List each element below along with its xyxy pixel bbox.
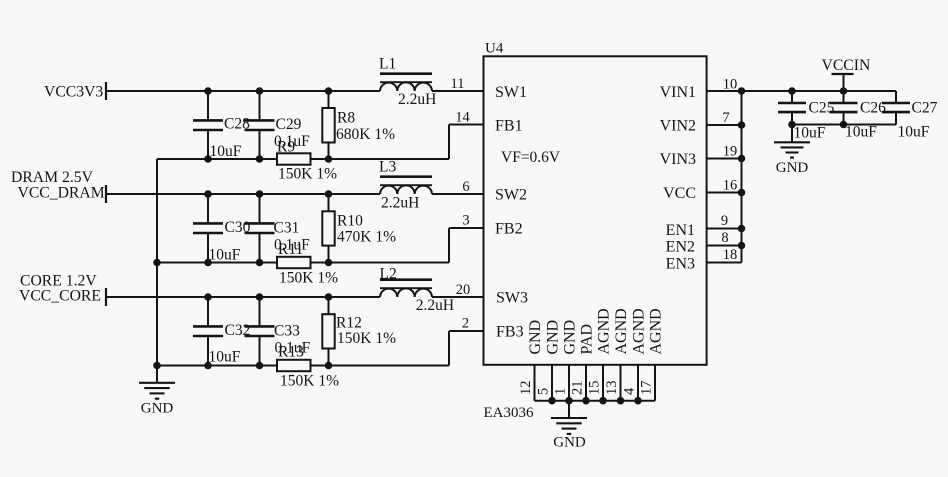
svg-text:10uF: 10uF bbox=[794, 125, 826, 142]
junction dots ch3 rail bbox=[153, 362, 332, 370]
wire VIN/EN pin stubs bbox=[707, 91, 742, 263]
svg-text:6: 6 bbox=[462, 179, 469, 195]
svg-text:R13: R13 bbox=[278, 344, 304, 361]
junction dots ch3 top wire bbox=[204, 293, 332, 301]
svg-text:19: 19 bbox=[723, 144, 738, 160]
wire VCC3V3 to SW1 bbox=[106, 90, 484, 92]
capacitor C29 bbox=[245, 91, 275, 159]
capacitor C32 bbox=[193, 297, 223, 366]
wire bottom ground rail bbox=[535, 400, 656, 402]
junction dots right bus bbox=[738, 87, 746, 249]
svg-text:14: 14 bbox=[455, 110, 470, 126]
svg-text:5: 5 bbox=[536, 388, 552, 395]
svg-text:VIN3: VIN3 bbox=[660, 151, 696, 168]
svg-text:EN1: EN1 bbox=[666, 222, 695, 239]
wire right bus vertical bbox=[741, 91, 743, 263]
wire VIN1 to input caps bbox=[742, 90, 897, 92]
resistor R8 bbox=[322, 91, 334, 159]
wire ch3 feedback rail bbox=[157, 331, 484, 366]
svg-text:7: 7 bbox=[722, 110, 729, 126]
junction dots ch2 rail bbox=[153, 259, 332, 267]
svg-text:17: 17 bbox=[639, 381, 655, 396]
resistor R13 bbox=[277, 360, 311, 371]
svg-text:10uF: 10uF bbox=[898, 124, 930, 141]
svg-text:2.2uH: 2.2uH bbox=[381, 195, 419, 212]
svg-text:C27: C27 bbox=[912, 100, 938, 117]
svg-text:C29: C29 bbox=[276, 116, 302, 133]
svg-text:EN2: EN2 bbox=[666, 239, 695, 256]
svg-text:EN3: EN3 bbox=[666, 256, 695, 273]
svg-text:VCC3V3: VCC3V3 bbox=[44, 84, 103, 101]
svg-text:18: 18 bbox=[723, 247, 738, 263]
svg-text:AGND: AGND bbox=[596, 308, 613, 354]
svg-text:AGND: AGND bbox=[613, 308, 630, 354]
port VCC3V3 bbox=[44, 82, 106, 101]
inductor L3 bbox=[380, 177, 432, 194]
wire VCC_CORE to SW3 bbox=[106, 296, 484, 298]
svg-text:FB2: FB2 bbox=[495, 221, 523, 238]
svg-text:GND: GND bbox=[527, 320, 544, 355]
svg-text:680K 1%: 680K 1% bbox=[336, 126, 395, 143]
capacitor C25 bbox=[778, 91, 806, 125]
capacitor C31 bbox=[245, 194, 275, 263]
wire bottom pin stubs bbox=[535, 365, 656, 401]
junction dots caps bbox=[788, 87, 847, 128]
svg-text:VIN1: VIN1 bbox=[660, 84, 696, 101]
svg-text:11: 11 bbox=[451, 76, 465, 92]
resistor R11 bbox=[277, 257, 311, 268]
svg-text:L2: L2 bbox=[380, 266, 397, 283]
svg-text:21: 21 bbox=[570, 381, 586, 396]
ground symbol right bbox=[774, 125, 810, 158]
svg-text:16: 16 bbox=[723, 178, 738, 194]
svg-text:1: 1 bbox=[553, 388, 569, 395]
resistor R9 bbox=[277, 153, 311, 164]
svg-text:PAD: PAD bbox=[579, 324, 596, 355]
inductor L2 bbox=[380, 280, 432, 297]
capacitor C27 bbox=[882, 91, 910, 125]
svg-text:8: 8 bbox=[721, 230, 728, 246]
op IC U4 body bbox=[484, 56, 707, 365]
svg-text:EA3036: EA3036 bbox=[484, 405, 534, 421]
svg-text:R8: R8 bbox=[337, 110, 355, 127]
svg-text:R12: R12 bbox=[336, 315, 362, 332]
svg-text:VCC_CORE: VCC_CORE bbox=[19, 288, 101, 305]
junction dots ch2 top wire bbox=[204, 190, 332, 198]
svg-text:L1: L1 bbox=[379, 56, 396, 73]
svg-text:U4: U4 bbox=[485, 41, 504, 57]
port VCC_CORE bbox=[19, 273, 106, 307]
svg-text:GND: GND bbox=[776, 160, 809, 176]
pin names GND/PAD/AGND (rotated) bbox=[527, 308, 665, 354]
resistor R10 bbox=[322, 194, 334, 263]
capacitor C30 bbox=[193, 194, 223, 263]
svg-text:VF=0.6V: VF=0.6V bbox=[501, 149, 561, 166]
svg-text:VCCIN: VCCIN bbox=[822, 57, 871, 74]
port VCC_DRAM bbox=[11, 169, 106, 203]
svg-text:FB3: FB3 bbox=[496, 324, 524, 341]
capacitor C28 bbox=[193, 91, 223, 159]
wire ch2 feedback rail bbox=[157, 228, 484, 263]
wire VCC_DRAM to SW2 bbox=[106, 193, 484, 195]
svg-text:12: 12 bbox=[518, 381, 534, 396]
svg-text:10uF: 10uF bbox=[210, 143, 242, 160]
ground symbol IC bbox=[551, 401, 587, 434]
svg-text:10uF: 10uF bbox=[209, 247, 241, 264]
inductor L1 bbox=[380, 74, 432, 91]
wire ground feed vertical bbox=[156, 159, 158, 366]
pin numbers 12 5 1 21 15 13 4 17 (rotated) bbox=[518, 381, 655, 396]
svg-text:15: 15 bbox=[587, 381, 603, 396]
svg-text:VCC: VCC bbox=[663, 185, 696, 202]
svg-text:3: 3 bbox=[462, 213, 469, 229]
svg-text:2: 2 bbox=[462, 316, 469, 332]
svg-text:150K 1%: 150K 1% bbox=[279, 270, 338, 287]
svg-text:9: 9 bbox=[721, 213, 728, 229]
resistor R12 bbox=[322, 297, 334, 366]
svg-text:150K 1%: 150K 1% bbox=[337, 330, 396, 347]
svg-text:10uF: 10uF bbox=[845, 124, 877, 141]
svg-text:20: 20 bbox=[456, 282, 471, 298]
svg-text:470K 1%: 470K 1% bbox=[337, 229, 396, 246]
svg-text:AGND: AGND bbox=[631, 308, 648, 354]
svg-text:150K 1%: 150K 1% bbox=[280, 373, 339, 390]
svg-text:SW2: SW2 bbox=[495, 187, 527, 204]
svg-text:SW1: SW1 bbox=[495, 84, 527, 101]
svg-text:SW3: SW3 bbox=[496, 290, 528, 307]
svg-text:C31: C31 bbox=[274, 220, 300, 237]
ground symbol left bbox=[139, 366, 175, 399]
svg-text:10uF: 10uF bbox=[209, 349, 241, 366]
junction dots bottom rail bbox=[548, 397, 642, 405]
svg-text:AGND: AGND bbox=[648, 308, 665, 354]
svg-text:13: 13 bbox=[604, 381, 620, 396]
wire ch1 feedback rail bbox=[157, 125, 484, 160]
capacitor C26 bbox=[830, 91, 858, 125]
svg-text:4: 4 bbox=[622, 387, 638, 395]
svg-text:10: 10 bbox=[723, 77, 738, 93]
svg-text:L3: L3 bbox=[379, 159, 396, 176]
svg-text:GND: GND bbox=[562, 320, 579, 355]
svg-text:R11: R11 bbox=[278, 241, 303, 258]
svg-text:VCC_DRAM: VCC_DRAM bbox=[18, 185, 105, 202]
svg-text:C33: C33 bbox=[274, 323, 300, 340]
wire caps bottom rail bbox=[792, 124, 896, 126]
svg-text:GND: GND bbox=[141, 401, 174, 417]
svg-text:FB1: FB1 bbox=[495, 118, 523, 135]
port VCCIN bbox=[822, 57, 871, 91]
capacitor C33 bbox=[245, 297, 275, 366]
svg-text:150K 1%: 150K 1% bbox=[278, 166, 337, 183]
junction dots ch1 rail bbox=[204, 155, 332, 163]
svg-text:GND: GND bbox=[545, 320, 562, 355]
junction dots ch1 top wire bbox=[204, 87, 332, 95]
svg-text:R10: R10 bbox=[337, 213, 363, 230]
svg-text:2.2uH: 2.2uH bbox=[398, 91, 436, 108]
svg-text:VIN2: VIN2 bbox=[660, 118, 696, 135]
svg-text:R9: R9 bbox=[277, 139, 295, 156]
svg-text:GND: GND bbox=[553, 435, 586, 451]
svg-text:DRAM 2.5V: DRAM 2.5V bbox=[11, 169, 94, 186]
svg-text:2.2uH: 2.2uH bbox=[416, 297, 454, 314]
